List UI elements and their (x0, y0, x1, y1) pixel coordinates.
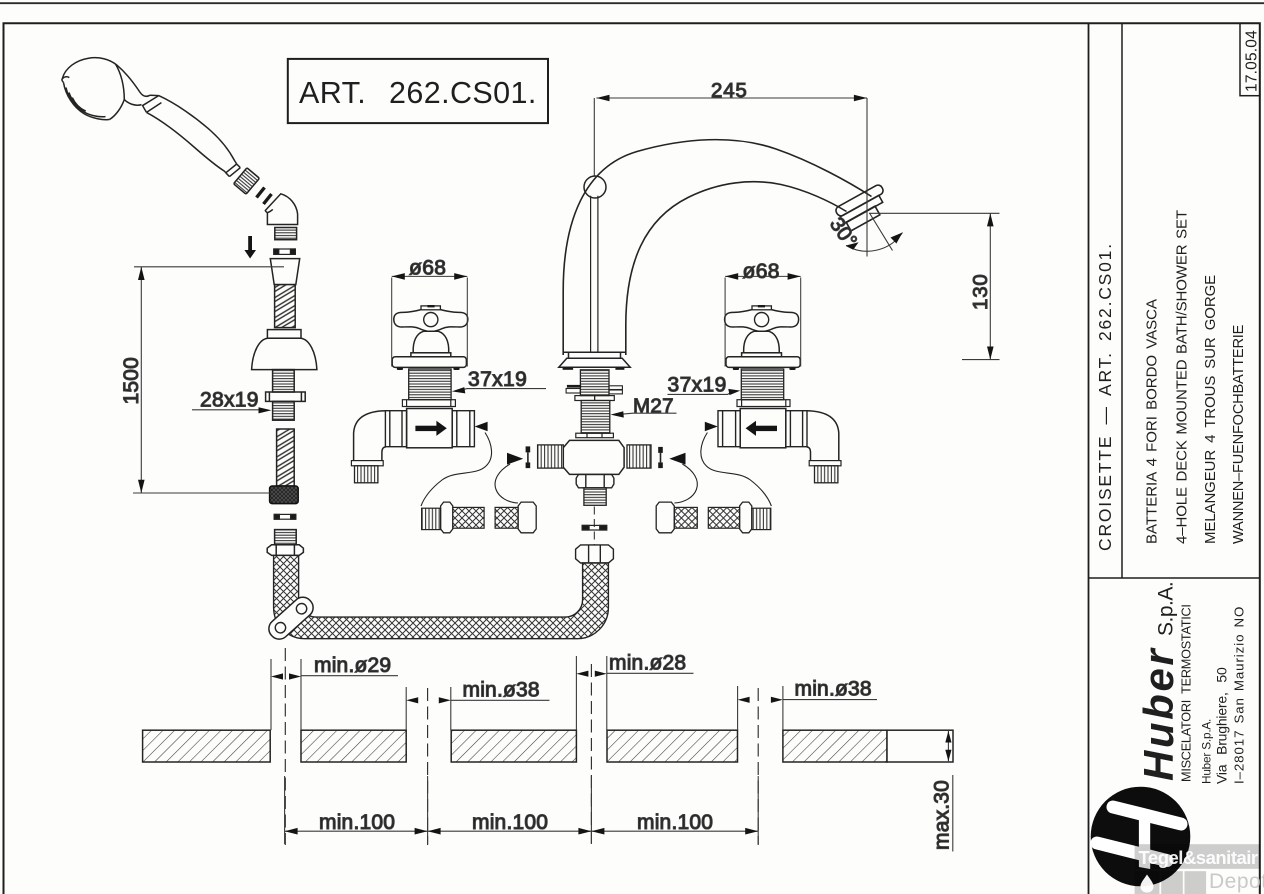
M27 threaded tube lower (581, 401, 610, 434)
collar nut 2 (576, 433, 614, 438)
valve union nut left (385, 411, 406, 447)
svg-text:min.100: min.100 (637, 811, 713, 834)
title column divider (1121, 23, 1123, 578)
svg-text:Huber: Huber (1135, 647, 1182, 781)
leader curve to tee (495, 464, 518, 503)
dim 245 right extension (866, 98, 868, 257)
centerline hole 1 (284, 648, 286, 845)
thread below washer (273, 401, 295, 420)
dim line o68 (392, 275, 468, 277)
min100 dim line (285, 830, 759, 832)
min o29 arrows (271, 673, 301, 679)
lift rod (591, 196, 598, 353)
min o38 left ext lines (405, 687, 407, 730)
svg-text:ART. 262.CS01.: ART. 262.CS01. (299, 76, 537, 110)
right tab 2 (609, 390, 622, 394)
valve bell base (411, 353, 451, 357)
hose mounting bracket (265, 593, 317, 643)
washer nut (266, 392, 306, 401)
30 deg arc arrowheads (846, 233, 903, 250)
max30 dim line (947, 731, 949, 761)
spout aerator tip (846, 206, 880, 231)
flex stub A braid (453, 507, 484, 528)
tee arrow left (507, 453, 523, 465)
elbow inner line (267, 209, 272, 212)
hex nut shower (267, 545, 303, 556)
max30 arrows (945, 731, 951, 761)
fitting thread (275, 530, 297, 545)
deck plate segment 3 (451, 730, 576, 762)
valve bell (413, 331, 449, 353)
dim o68 arrows (392, 273, 468, 280)
left tab dark (567, 385, 581, 388)
svg-text:I–28017 San Maurizio NO: I–28017 San Maurizio NO (1232, 606, 1247, 784)
watermark band (1135, 844, 1260, 869)
valve union nut right (452, 411, 474, 447)
hand shower head dome (62, 58, 150, 97)
watermark square 3 (1185, 871, 1207, 894)
min o38 left arrows (406, 697, 451, 703)
tee right port thread (627, 445, 651, 468)
dome threaded rod (273, 370, 295, 392)
flex stub A nut (441, 502, 453, 533)
flex stub A thread (422, 508, 441, 529)
centerline hole 4 (757, 688, 759, 845)
right valve assembly (mirrored) (656, 273, 841, 533)
svg-text:ø68: ø68 (743, 260, 780, 283)
elbow thread tip (355, 466, 378, 483)
tee hex below (576, 474, 614, 487)
escutcheon feet (397, 367, 460, 370)
centerline hole 3 (590, 664, 592, 845)
left tab (566, 389, 580, 394)
svg-text:1500: 1500 (120, 357, 143, 405)
hose cone (270, 259, 299, 285)
valve shank thread (409, 369, 451, 400)
min o29 ext lines (270, 659, 272, 730)
valve top nub (421, 306, 440, 310)
dim 245 left extension (593, 98, 595, 176)
deck plate segment 5 (783, 730, 887, 762)
svg-text:28x19: 28x19 (200, 389, 259, 412)
dim 130 bottom extension (962, 359, 1000, 361)
left o-ring bar (526, 446, 531, 468)
spout outlet ring (840, 195, 882, 223)
tee arrow right (669, 453, 685, 465)
svg-text:min.ø38: min.ø38 (463, 679, 540, 702)
neck bottom (142, 105, 146, 113)
handle end cap (226, 164, 241, 177)
svg-text:Depot: Depot (1209, 870, 1264, 893)
svg-text:245: 245 (711, 79, 748, 102)
dim 130 line (989, 213, 991, 359)
flange gasket left (563, 367, 574, 370)
leader curve from inlet (421, 433, 492, 507)
svg-text:30°: 30° (825, 213, 862, 252)
deck plate segment 4 (607, 730, 738, 762)
dim line ext right (466, 278, 468, 367)
valve nub dash (427, 305, 434, 307)
dim 245 line (596, 97, 867, 99)
deck plate segment 6 plain (887, 730, 953, 762)
elbow thread (275, 228, 297, 240)
svg-text:MELANGEUR 4 TROUS SUR GORGE: MELANGEUR 4 TROUS SUR GORGE (1202, 275, 1219, 544)
svg-text:WANNEN–FUENFOCHBATTERIE: WANNEN–FUENFOCHBATTERIE (1231, 324, 1247, 544)
tee left port thread (538, 445, 564, 468)
min100 tick 4 (757, 776, 759, 844)
page top scan line (0, 2, 1264, 4)
escutcheon top cylinder (267, 330, 301, 339)
Huber logo H stem lower (1097, 843, 1167, 861)
handle knurl collar (233, 168, 259, 195)
flange gasket right (615, 367, 624, 370)
valve flange nut (402, 400, 455, 407)
rope hose 2 (277, 429, 295, 486)
Huber logo circle (1091, 787, 1191, 887)
svg-text:M27: M27 (633, 395, 674, 418)
dim 130 arrows (987, 213, 994, 359)
svg-text:max.30: max.30 (931, 780, 954, 850)
valve flow arrow (415, 421, 446, 436)
dim 130 top extension (869, 212, 1000, 214)
shower handle top edge (150, 95, 237, 164)
head lip (62, 77, 69, 83)
M27 underline and leader (620, 413, 677, 414)
dim 1500 arrows (138, 267, 145, 493)
watermark square 2 (1161, 871, 1183, 894)
knurled black nut (270, 486, 299, 504)
valve outlet elbow (354, 411, 386, 461)
min100 tick 2 (427, 776, 429, 844)
svg-text:MISCELATORI TERMOSTATICI: MISCELATORI TERMOSTATICI (1180, 604, 1194, 782)
ART box (288, 59, 548, 123)
left valve assembly (351, 273, 536, 533)
spout base flange (559, 352, 630, 367)
Huber logo H stem upper (1113, 807, 1181, 824)
svg-text:S.p.A.: S.p.A. (1155, 582, 1178, 636)
dim 1500 vertical line (140, 267, 142, 493)
spray face lines (66, 88, 106, 117)
tee body (563, 440, 624, 474)
min o38 right arrows (738, 697, 783, 703)
o-ring ticks (257, 188, 272, 205)
svg-text:4–HOLE DECK MOUNTED BATH/SHOWE: 4–HOLE DECK MOUNTED BATH/SHOWER SET (1174, 210, 1191, 544)
spout outer curve (563, 140, 871, 355)
deck plate segment 2 (301, 730, 406, 762)
elbow collar (351, 461, 383, 466)
svg-text:min.100: min.100 (319, 811, 395, 834)
tee outlet thread (584, 488, 606, 506)
valve inlet arrowhead (475, 422, 488, 432)
svg-text:37x19: 37x19 (668, 374, 727, 397)
spout inner curve (626, 182, 847, 355)
valve escutcheon (392, 357, 466, 368)
tee centerline dashes (593, 507, 595, 546)
min100 tick 3 (590, 776, 592, 844)
min100 arrows (285, 828, 759, 835)
down arrow (244, 236, 256, 259)
main braided hose run (274, 555, 609, 638)
svg-text:min.ø28: min.ø28 (609, 652, 686, 675)
svg-text:130: 130 (969, 273, 992, 310)
deck plate segment 1 (143, 730, 271, 762)
dim 1500 bottom extension line (133, 492, 273, 494)
dim 1500 top extension line (134, 266, 284, 268)
right 37x19 underline + arrow (668, 393, 732, 395)
collar nut 1 (575, 396, 614, 401)
svg-text:ø68: ø68 (409, 256, 446, 279)
date box (1240, 23, 1260, 96)
head face edge (64, 83, 110, 120)
dim 245 arrows (596, 95, 867, 102)
svg-text:Via Brughiere, 50: Via Brughiere, 50 (1214, 667, 1230, 784)
left 37x19 underline + arrow (460, 389, 546, 391)
svg-text:min.ø29: min.ø29 (314, 654, 391, 677)
watermark drop icon (1141, 875, 1154, 893)
rope hose 1 (275, 285, 296, 328)
centerline hole 2 (427, 688, 429, 845)
min o28 arrows (576, 671, 606, 677)
escutcheon dome (252, 338, 317, 369)
valve cross arm (394, 310, 468, 332)
M27 threaded tube upper (580, 370, 609, 396)
30 deg direction line (870, 214, 893, 251)
min o38 right ext lines (737, 686, 739, 730)
flat o-ring (274, 249, 296, 254)
label 28x19 leader (192, 409, 266, 411)
svg-text:Huber S.p.A.: Huber S.p.A. (1200, 719, 1214, 784)
valve body (407, 409, 453, 448)
svg-text:min.ø38: min.ø38 (795, 678, 872, 701)
right o-ring bar (658, 447, 663, 468)
o-ring small (274, 514, 296, 519)
head inner dome line (116, 64, 125, 100)
flex stub B braid (495, 507, 518, 528)
svg-text:CROISETTE — ART. 262.CS01.: CROISETTE — ART. 262.CS01. (1095, 242, 1115, 551)
30 deg arc (846, 233, 903, 252)
small o-ring below tee (582, 525, 607, 530)
svg-text:37x19: 37x19 (468, 368, 527, 391)
dim line ext left (391, 278, 393, 367)
min o28 ext lines (575, 656, 577, 730)
title block left divider (1088, 23, 1090, 894)
min100 tick 1 (284, 776, 286, 844)
svg-text:17.05.04: 17.05.04 (1244, 30, 1261, 92)
neck ring lines (143, 96, 161, 113)
shower handle bottom edge (147, 112, 226, 172)
max30 underline (952, 775, 954, 852)
svg-text:BATTERIA 4 FORI BORDO VASCA: BATTERIA 4 FORI BORDO VASCA (1144, 299, 1161, 544)
flex stub B nut (518, 502, 536, 533)
title block horizontal divider (1089, 577, 1260, 579)
svg-text:min.100: min.100 (472, 811, 548, 834)
lift rod ball (584, 176, 606, 198)
right tab 1 (609, 386, 622, 390)
svg-text:Tegel&sanitair: Tegel&sanitair (1139, 847, 1258, 868)
hose hex nut (576, 545, 614, 563)
watermark square 1 (1135, 871, 1160, 894)
head chin (110, 100, 142, 120)
Huber logo H crossbar (1139, 818, 1150, 869)
spout outlet flange (834, 184, 884, 218)
elbow connector (265, 194, 297, 225)
valve hub circle (424, 313, 438, 327)
